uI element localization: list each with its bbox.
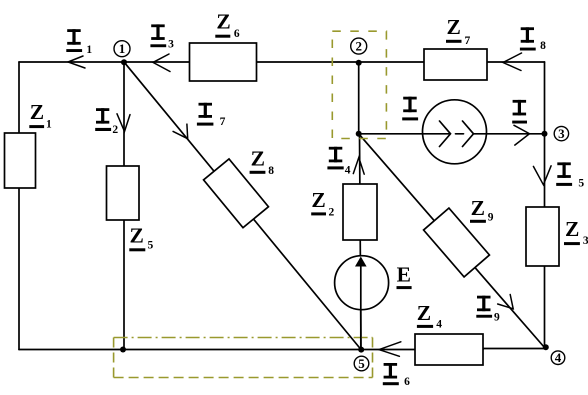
svg-text:4: 4 xyxy=(436,318,442,330)
svg-text:Z: Z xyxy=(471,196,485,220)
svg-text:4: 4 xyxy=(555,350,562,365)
svg-text:1: 1 xyxy=(46,119,52,131)
svg-text:9: 9 xyxy=(488,212,494,224)
svg-text:9: 9 xyxy=(494,312,500,324)
svg-text:7: 7 xyxy=(220,116,226,128)
svg-text:2: 2 xyxy=(112,124,118,136)
svg-text:1: 1 xyxy=(119,41,126,56)
svg-text:E: E xyxy=(397,263,411,287)
svg-text:8: 8 xyxy=(268,165,274,177)
svg-text:5: 5 xyxy=(358,356,365,371)
svg-text:5: 5 xyxy=(148,240,154,252)
svg-text:Z: Z xyxy=(565,217,579,241)
svg-text:Z: Z xyxy=(30,100,44,124)
svg-text:Z: Z xyxy=(130,224,144,248)
svg-text:2: 2 xyxy=(355,39,362,54)
svg-text:7: 7 xyxy=(465,35,471,47)
svg-text:8: 8 xyxy=(540,40,546,52)
svg-text:6: 6 xyxy=(404,376,410,388)
svg-text:1: 1 xyxy=(86,44,92,56)
svg-text:3: 3 xyxy=(583,235,588,247)
svg-text:4: 4 xyxy=(345,165,351,177)
svg-text:3: 3 xyxy=(558,126,565,141)
svg-text:Z: Z xyxy=(216,9,230,33)
svg-text:6: 6 xyxy=(234,28,240,40)
svg-text:3: 3 xyxy=(168,39,174,51)
svg-text:Z: Z xyxy=(447,15,461,39)
svg-text:Z: Z xyxy=(417,301,431,325)
svg-text:Z: Z xyxy=(311,188,325,212)
svg-text:5: 5 xyxy=(578,178,584,190)
svg-text:Z: Z xyxy=(251,146,265,170)
svg-text:2: 2 xyxy=(329,207,335,219)
